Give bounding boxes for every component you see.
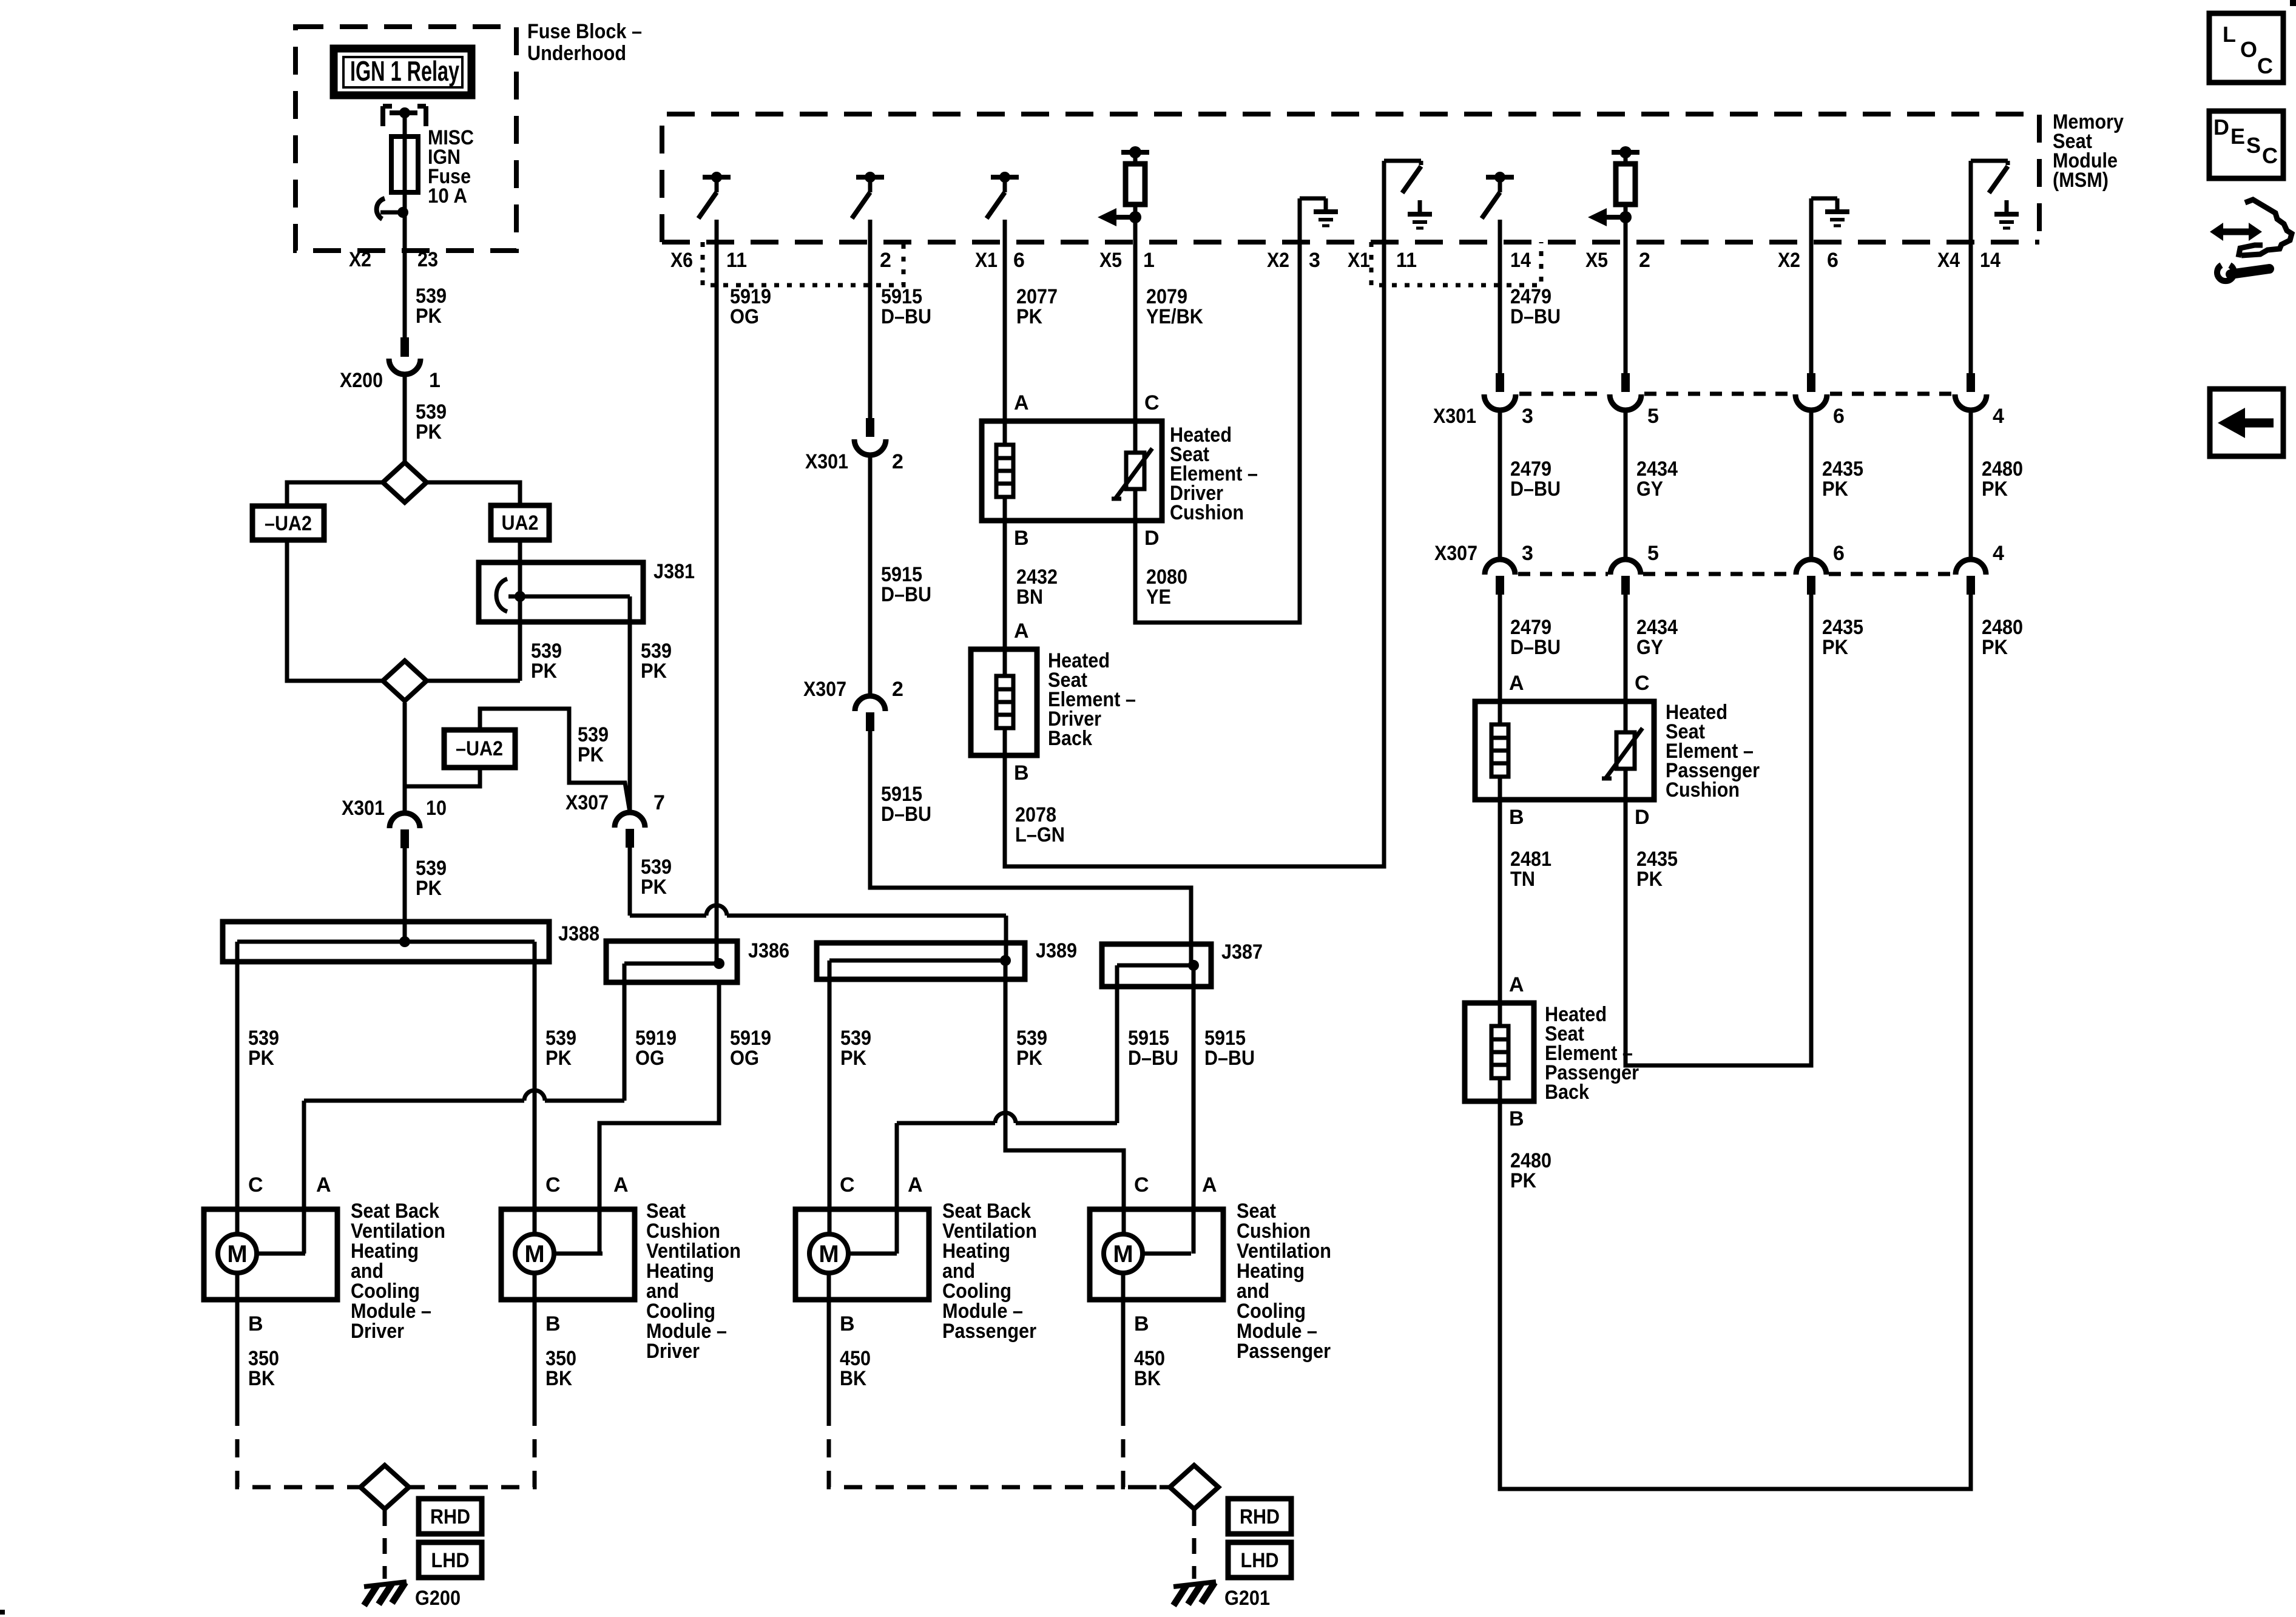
wire -UA2 down to diamond 2 (287, 540, 382, 681)
svg-text:D–BU: D–BU (1510, 305, 1561, 328)
svg-text:RHD: RHD (1240, 1505, 1280, 1528)
svg-text:D: D (1144, 527, 1160, 550)
svg-text:M: M (1113, 1241, 1133, 1268)
option box -UA2 second (444, 730, 515, 768)
wire X6-11 5919 OG (717, 242, 771, 964)
svg-text:PK: PK (1822, 478, 1848, 501)
svg-text:Passenger: Passenger (1237, 1340, 1331, 1363)
svg-text:C: C (1134, 1173, 1149, 1197)
svg-text:X307: X307 (803, 678, 846, 701)
svg-text:A: A (1014, 391, 1029, 414)
svg-text:PK: PK (416, 877, 442, 900)
svg-text:J389: J389 (1036, 939, 1077, 962)
svg-text:G200: G200 (415, 1587, 461, 1610)
svg-text:B: B (840, 1312, 855, 1335)
svg-text:OG: OG (730, 1047, 759, 1070)
splice pack J388 (223, 922, 599, 962)
svg-text:S: S (2246, 133, 2261, 158)
svg-text:IGN 1 Relay: IGN 1 Relay (350, 55, 459, 87)
ground net passenger dashed (829, 1408, 1218, 1487)
svg-text:Driver: Driver (646, 1340, 700, 1363)
svg-text:14: 14 (1510, 249, 1531, 272)
svg-text:X5: X5 (1585, 249, 1608, 272)
svg-text:Back: Back (1545, 1081, 1589, 1104)
wire 5915 D-BU middle (870, 455, 931, 696)
wire X6-2 5915 D-BU upper (870, 242, 931, 418)
wire X200 to splice diamond (403, 373, 407, 462)
svg-text:Cushion: Cushion (1170, 501, 1244, 524)
svg-text:BK: BK (840, 1367, 866, 1390)
wire X5-2 to X301-5 (1624, 242, 1628, 374)
svg-text:1: 1 (1143, 249, 1155, 272)
svg-text:YE: YE (1146, 586, 1171, 609)
svg-text:BK: BK (1134, 1367, 1161, 1390)
ground diamond passenger (1170, 1465, 1218, 1509)
svg-text:C: C (248, 1173, 263, 1197)
connector X307 pin 2 (803, 678, 903, 731)
splice diamond (383, 462, 427, 502)
wire 2435 PK mid (1811, 410, 1863, 559)
connector X301 pin 10 (342, 797, 447, 848)
svg-text:PK: PK (416, 420, 442, 444)
svg-text:B: B (248, 1312, 263, 1335)
svg-text:OG: OG (730, 305, 759, 328)
ground net driver dashed (237, 1408, 535, 1487)
svg-text:11: 11 (726, 249, 747, 272)
wire 2479 D-BU to element (1500, 595, 1561, 719)
connector X1 dotted box (1371, 242, 1541, 285)
msm switch ground pin X1-11 (1348, 161, 1432, 272)
svg-text:L–GN: L–GN (1015, 823, 1065, 846)
wire J381 right out 539 PK (630, 622, 672, 814)
heated seat element driver back (971, 619, 1136, 755)
connector X6 dotted box (703, 242, 903, 285)
wire 2432 BN (1005, 521, 1058, 649)
relay contact bracket (383, 106, 426, 126)
svg-text:X200: X200 (340, 369, 383, 392)
msm switch pin X1-6 (975, 172, 1025, 272)
wire J388 right 539 PK to module (535, 962, 576, 1234)
memory seat module dashed box (662, 114, 2039, 242)
svg-text:PK: PK (1822, 636, 1848, 659)
svg-text:4: 4 (1993, 542, 2004, 565)
wire J388 left 539 PK to module (237, 962, 279, 1234)
wire J387 right 5915 D-BU to module A (1194, 987, 1255, 1254)
svg-text:B: B (1134, 1312, 1149, 1335)
heated seat element passenger cushion (1475, 701, 1760, 829)
svg-text:X1: X1 (1348, 249, 1370, 272)
svg-text:6: 6 (1827, 249, 1838, 272)
ground stem passenger (1192, 1510, 1197, 1579)
svg-text:6: 6 (1833, 542, 1845, 565)
svg-text:A: A (316, 1173, 331, 1197)
msm switch pin X6-2 (852, 172, 891, 272)
svg-text:B: B (1509, 1107, 1524, 1130)
wire 2480 PK mid (1971, 410, 2023, 559)
svg-text:J386: J386 (748, 939, 789, 962)
svg-text:J381: J381 (653, 560, 695, 583)
corner mark bottom left (0, 1610, 5, 1615)
svg-text:C: C (545, 1173, 561, 1197)
svg-text:X307: X307 (566, 791, 609, 814)
svg-text:C: C (2257, 53, 2273, 78)
option box -UA2 (252, 506, 324, 540)
wire 2435 PK long (1626, 595, 1863, 1065)
msm switch pin X6-11 (670, 172, 747, 272)
fuse block underhood dashed box (295, 27, 516, 251)
svg-text:D–BU: D–BU (881, 803, 931, 826)
svg-text:A: A (1202, 1173, 1217, 1197)
svg-text:OG: OG (635, 1047, 664, 1070)
label fuse block underhood (527, 20, 642, 65)
svg-text:M: M (524, 1241, 544, 1268)
connector X301 pin 6 (1795, 373, 1845, 428)
wire 5915 D-BU to J387 (870, 731, 1191, 965)
svg-text:X307: X307 (1434, 542, 1477, 565)
svg-text:J387: J387 (1221, 940, 1263, 964)
connector X307 pin 7 (566, 791, 665, 848)
svg-text:X6: X6 (670, 249, 693, 272)
svg-text:D–BU: D–BU (1510, 636, 1561, 659)
svg-text:PK: PK (248, 1047, 274, 1070)
wire X5-1 2079 YE BK (1135, 242, 1203, 449)
svg-text:Cushion: Cushion (1666, 778, 1740, 802)
wire J386 right 5919 OG to module A (599, 982, 771, 1254)
wire diamond2 to X301-10 (403, 703, 407, 814)
svg-text:3: 3 (1309, 249, 1320, 272)
branch to -UA2 second (405, 768, 480, 786)
splice pack J386 (606, 939, 789, 982)
icon hand with wrench (2210, 200, 2292, 281)
wire X2-6 to X301-6 (1809, 242, 1814, 374)
wire label 539 PK (416, 400, 447, 444)
connector X307 pin 6 (1796, 542, 1845, 595)
svg-text:B: B (545, 1312, 561, 1335)
svg-text:A: A (908, 1173, 923, 1197)
wire J389 left 539 PK to module C (829, 979, 871, 1234)
module seat back vent driver (204, 1173, 445, 1408)
dashed bus X307 row (1518, 572, 1953, 576)
svg-text:BK: BK (248, 1367, 275, 1390)
wire label 539 PK (416, 285, 447, 328)
svg-text:BK: BK (545, 1367, 572, 1390)
svg-text:11: 11 (1396, 249, 1417, 272)
wire J387 left 5915 D-BU to module A (897, 987, 1178, 1254)
connector X301 pin 3 (1484, 373, 1533, 428)
msm ground pin X2-3 (1267, 198, 1338, 272)
svg-text:A: A (1509, 973, 1524, 996)
fuse MISC IGN Fuse 10 A (391, 126, 474, 212)
msm switch pin X1-14 (1482, 172, 1531, 272)
connector X307 pin 3 (1485, 542, 1533, 595)
wire X1-6 2077 PK (1005, 242, 1058, 437)
svg-text:J388: J388 (558, 922, 599, 945)
svg-text:PK: PK (578, 743, 604, 766)
svg-text:B: B (1014, 527, 1029, 550)
pin labels X2 23 (349, 248, 438, 271)
svg-text:L: L (2223, 22, 2236, 47)
label memory seat module (2053, 110, 2124, 192)
ground diamond driver (360, 1465, 409, 1509)
svg-text:PK: PK (1510, 1169, 1536, 1192)
svg-text:D–BU: D–BU (1204, 1047, 1255, 1070)
svg-text:2: 2 (892, 678, 903, 701)
svg-text:GY: GY (1636, 478, 1663, 501)
svg-text:PK: PK (545, 1047, 572, 1070)
svg-text:14: 14 (1980, 249, 2001, 272)
wire 2434 GY mid (1626, 410, 1678, 559)
wire UA2 to J381 (518, 540, 522, 564)
svg-text:10 A: 10 A (428, 184, 467, 208)
svg-text:D–BU: D–BU (1510, 478, 1561, 501)
svg-text:YE/BK: YE/BK (1146, 305, 1203, 328)
wire fuse to X2-23 (403, 212, 407, 337)
svg-text:A: A (1509, 672, 1524, 695)
icon LOC box (2209, 13, 2283, 83)
wire 2435 PK from D (1636, 848, 1678, 891)
wire 2480 PK long (1500, 595, 2023, 1489)
module seat cushion vent passenger (1090, 1173, 1331, 1408)
svg-text:O: O (2240, 37, 2257, 62)
svg-text:RHD: RHD (430, 1505, 470, 1528)
svg-text:7: 7 (653, 791, 665, 814)
svg-text:Fuse Block –: Fuse Block – (527, 20, 642, 43)
option box UA2 (491, 505, 549, 540)
wire X1-14 2479 D-BU (1500, 242, 1561, 375)
msm resistor pin X5-2 (1585, 146, 1650, 272)
svg-text:X5: X5 (1099, 249, 1122, 272)
connector X301 pin 4 (1955, 373, 2004, 428)
svg-text:PK: PK (840, 1047, 866, 1070)
wire X4-14 to X301-4 (1969, 242, 1973, 374)
svg-text:6: 6 (1833, 405, 1845, 428)
svg-text:C: C (1635, 672, 1650, 695)
wire J389 right 539 PK to module C (1005, 979, 1124, 1234)
wire J386 left 5919 OG to module A (304, 982, 677, 1254)
svg-text:PK: PK (531, 660, 557, 683)
svg-text:X301: X301 (805, 450, 848, 473)
svg-text:LHD: LHD (1241, 1549, 1279, 1572)
wire J381 left out 539 PK (428, 622, 562, 683)
svg-text:5: 5 (1647, 405, 1659, 428)
splice pack J389 (817, 939, 1077, 979)
connector X301 pin 5 (1610, 373, 1659, 428)
svg-text:D–BU: D–BU (1128, 1047, 1178, 1070)
svg-text:UA2: UA2 (502, 511, 539, 535)
svg-text:B: B (1509, 806, 1524, 829)
svg-text:3: 3 (1522, 405, 1533, 428)
heated seat element driver cushion (982, 391, 1258, 550)
msm resistor pin X5-1 (1098, 146, 1155, 272)
wire X307-7 to J389 539 PK (630, 848, 1006, 960)
option box RHD (419, 1499, 482, 1534)
svg-text:2: 2 (1639, 249, 1650, 272)
svg-text:D: D (1635, 806, 1650, 829)
option box RHD 2 (1228, 1499, 1291, 1534)
svg-text:E: E (2230, 124, 2245, 149)
connector row X307 right label (1434, 542, 1477, 565)
svg-text:C: C (2262, 143, 2278, 168)
svg-text:X2: X2 (1778, 249, 1800, 272)
svg-text:5: 5 (1647, 542, 1659, 565)
corner mark top right (2290, 0, 2296, 6)
svg-text:10: 10 (426, 797, 447, 820)
svg-text:M: M (227, 1241, 247, 1268)
svg-text:Driver: Driver (351, 1320, 404, 1343)
wire 2434 GY to element (1626, 595, 1678, 723)
relay IGN 1 Relay (334, 49, 471, 95)
svg-text:PK: PK (641, 660, 667, 683)
icon DESC box (2209, 111, 2283, 178)
msm switch ground pin X4-14 (1937, 161, 2019, 272)
splice pack J381 (479, 560, 695, 622)
svg-text:2: 2 (880, 249, 891, 272)
svg-text:2: 2 (892, 450, 903, 473)
wire 2480 PK from B (1510, 1149, 1551, 1192)
svg-text:PK: PK (416, 305, 442, 328)
svg-text:X301: X301 (342, 797, 385, 820)
svg-text:X1: X1 (975, 249, 998, 272)
svg-text:1: 1 (429, 369, 441, 392)
svg-text:23: 23 (417, 248, 438, 271)
wire -UA2 second to X307-7 (480, 709, 630, 812)
svg-text:X2: X2 (349, 248, 371, 271)
switch hook in fuse block (377, 198, 408, 219)
heated seat element passenger back (1465, 1003, 1639, 1130)
svg-text:PK: PK (1982, 636, 2008, 659)
icon back arrow box (2210, 389, 2283, 456)
svg-text:D–BU: D–BU (881, 305, 931, 328)
wire X301-10 to J388 (405, 848, 447, 942)
connector X307 pin 5 (1610, 542, 1659, 595)
svg-text:TN: TN (1510, 868, 1535, 891)
splice pack J387 (1102, 940, 1263, 987)
svg-text:PK: PK (1636, 868, 1663, 891)
svg-text:3: 3 (1522, 542, 1533, 565)
svg-text:X4: X4 (1937, 249, 1960, 272)
svg-text:PK: PK (1016, 305, 1042, 328)
ground stem driver (383, 1510, 387, 1579)
dashed bus X301 row (1519, 392, 1952, 396)
svg-text:C: C (1144, 391, 1160, 414)
wire diamond to UA2 (427, 482, 520, 505)
svg-text:Back: Back (1048, 727, 1092, 750)
svg-text:BN: BN (1016, 586, 1043, 609)
wire relay to fuse (403, 113, 407, 137)
svg-text:–UA2: –UA2 (456, 737, 503, 760)
msm ground pin X2-6 (1778, 198, 1849, 272)
svg-text:G201: G201 (1224, 1587, 1270, 1610)
svg-text:D–BU: D–BU (881, 583, 931, 606)
wire 2080 YE to X2-3 (1135, 242, 1300, 623)
connector X307 pin 4 (1956, 542, 2004, 595)
svg-text:PK: PK (1016, 1047, 1042, 1070)
svg-text:Underhood: Underhood (527, 42, 626, 65)
module seat cushion vent driver (501, 1173, 741, 1408)
svg-text:GY: GY (1636, 636, 1663, 659)
svg-text:PK: PK (1982, 478, 2008, 501)
svg-text:B: B (1014, 761, 1029, 785)
svg-text:PK: PK (641, 876, 667, 899)
connector row X301 right label (1433, 405, 1476, 428)
svg-text:M: M (819, 1241, 839, 1268)
svg-text:6: 6 (1013, 249, 1025, 272)
connector X200 pin 1 (340, 337, 441, 392)
splice diamond 2 (383, 661, 427, 701)
svg-text:A: A (613, 1173, 629, 1197)
connector X301 pin 2 (805, 418, 903, 473)
module seat back vent passenger (795, 1173, 1037, 1408)
svg-text:X301: X301 (1433, 405, 1476, 428)
svg-text:X2: X2 (1267, 249, 1289, 272)
ground G201 (1173, 1582, 1270, 1610)
svg-text:C: C (840, 1173, 855, 1197)
svg-text:D: D (2213, 115, 2229, 140)
option box LHD (419, 1542, 482, 1578)
wire 2078 L-GN to X1-11 (1005, 242, 1384, 866)
svg-text:4: 4 (1993, 405, 2004, 428)
ground G200 (364, 1582, 461, 1610)
option box LHD 2 (1228, 1542, 1291, 1578)
wire diamond to -UA2 (287, 482, 383, 506)
wire 2481 TN (1500, 800, 1551, 1003)
wire 2479 D-BU mid (1500, 410, 1561, 559)
svg-text:Passenger: Passenger (942, 1320, 1036, 1343)
svg-text:A: A (1014, 619, 1029, 643)
svg-text:(MSM): (MSM) (2053, 169, 2109, 192)
svg-text:LHD: LHD (431, 1549, 470, 1572)
svg-text:–UA2: –UA2 (265, 512, 312, 535)
